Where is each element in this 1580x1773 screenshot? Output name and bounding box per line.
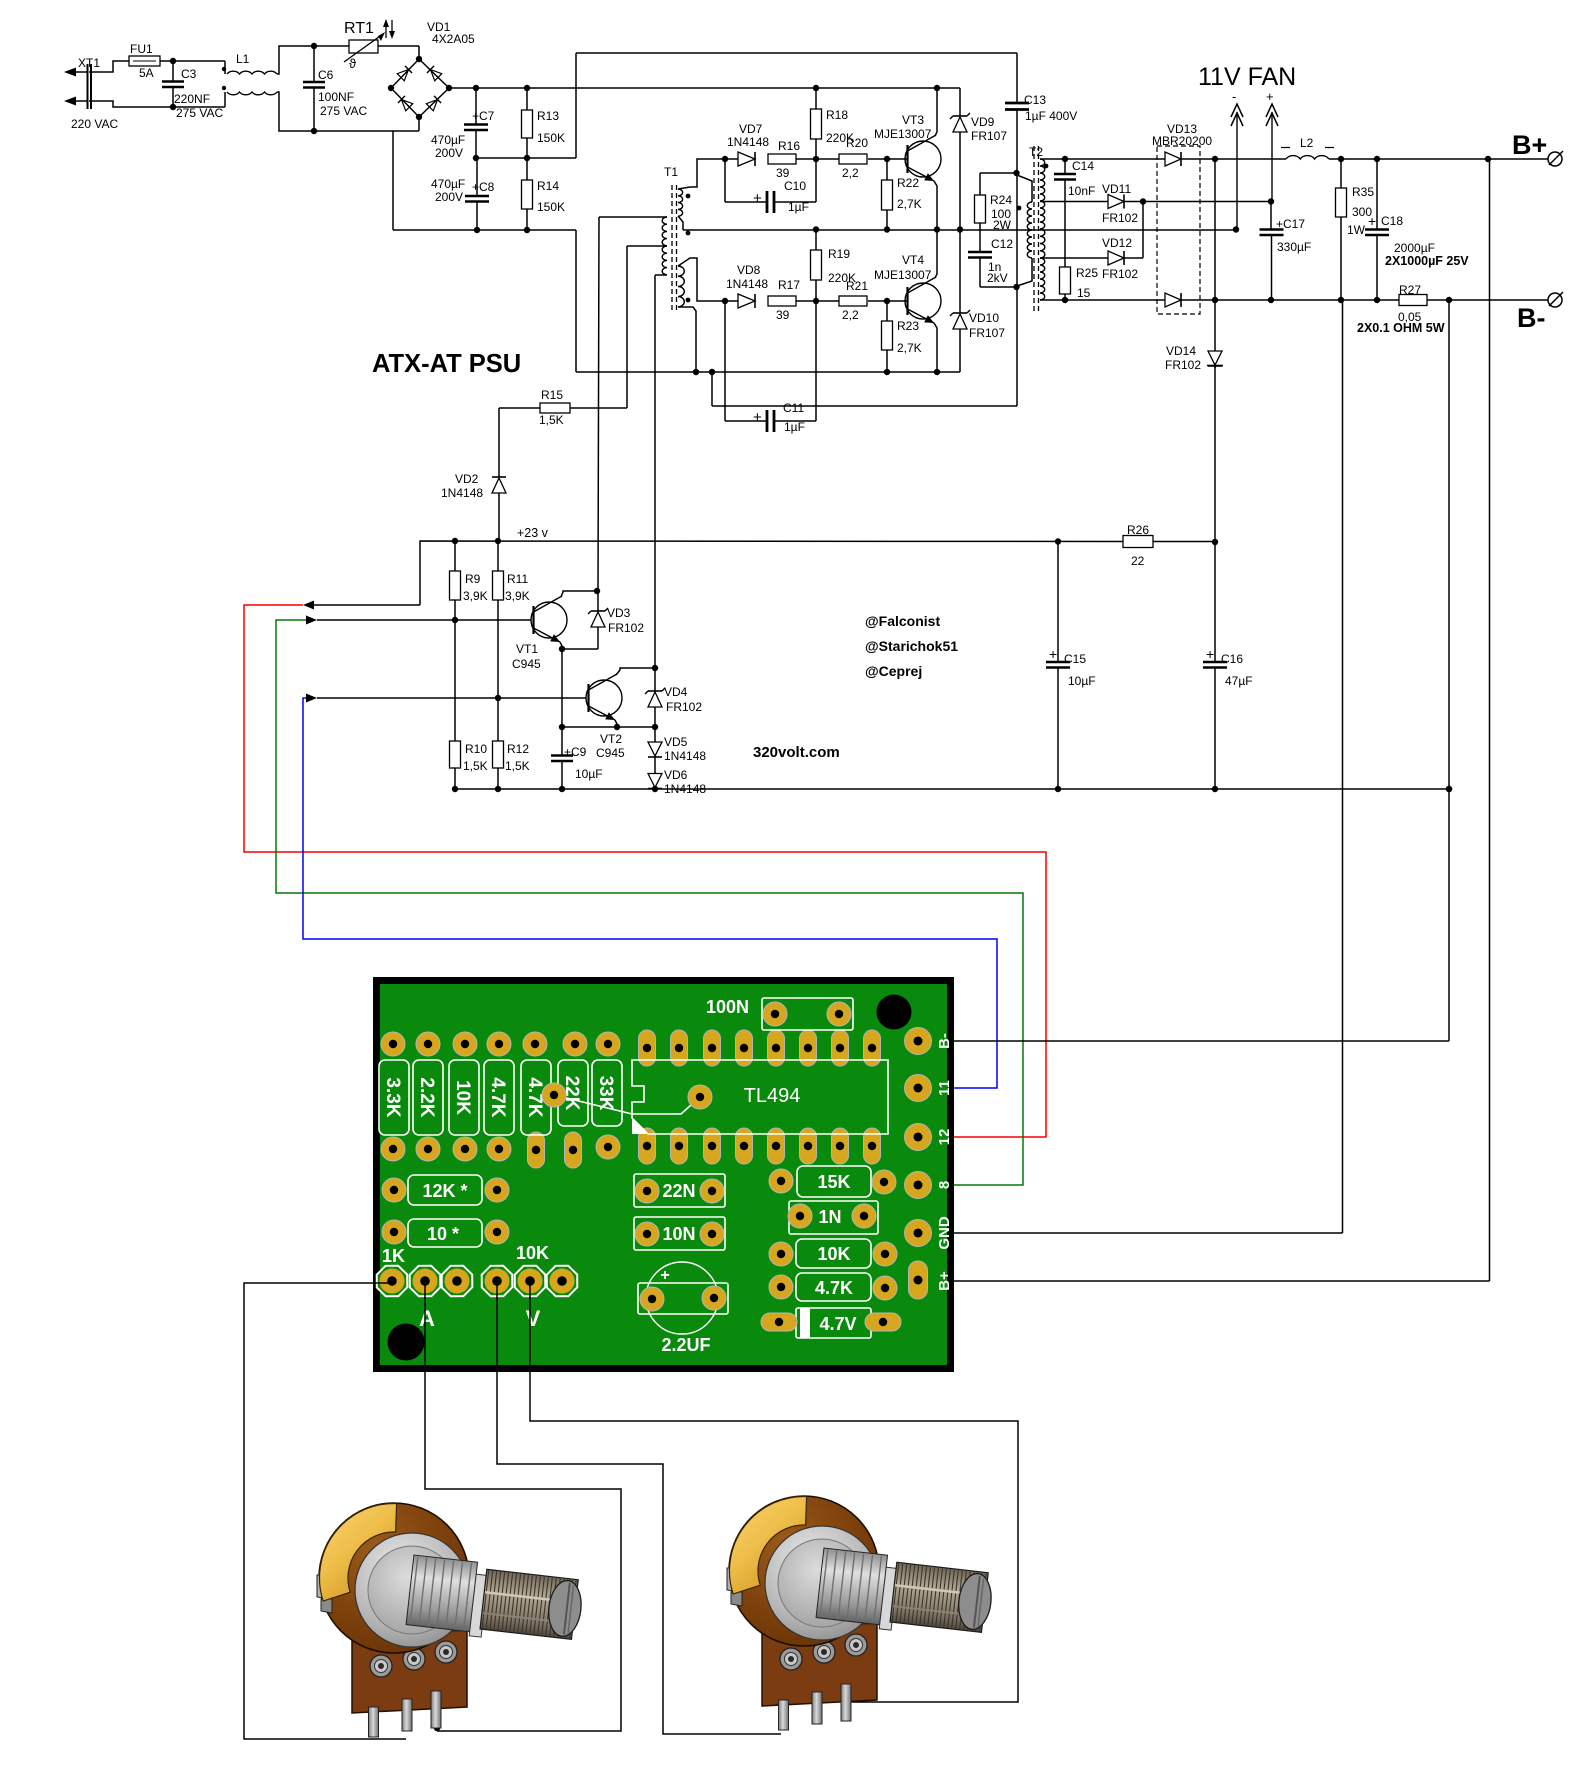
- svg-text:+C8: +C8: [472, 180, 495, 194]
- svg-text:T2: T2: [1029, 145, 1043, 159]
- svg-text:R27: R27: [1399, 283, 1421, 297]
- svg-text:R11: R11: [507, 572, 528, 586]
- svg-text:MJE13007: MJE13007: [874, 127, 932, 141]
- svg-text:275 VAC: 275 VAC: [320, 104, 367, 118]
- svg-text:4.7K: 4.7K: [815, 1278, 853, 1298]
- svg-text:300: 300: [1352, 205, 1372, 219]
- svg-text:+: +: [1049, 646, 1057, 662]
- svg-text:8: 8: [936, 1181, 953, 1189]
- svg-text:1K: 1K: [382, 1246, 405, 1266]
- svg-text:C10: C10: [784, 179, 806, 193]
- svg-text:1N4148: 1N4148: [727, 135, 769, 149]
- svg-text:10K: 10K: [817, 1244, 850, 1264]
- svg-text:R22: R22: [897, 176, 919, 190]
- svg-text:330µF: 330µF: [1277, 240, 1311, 254]
- svg-text:150K: 150K: [537, 131, 565, 145]
- svg-text:C15: C15: [1064, 652, 1086, 666]
- svg-text:FR102: FR102: [1102, 267, 1138, 281]
- svg-text:R13: R13: [537, 109, 559, 123]
- svg-text:FR102: FR102: [666, 700, 702, 714]
- svg-text:220 VAC: 220 VAC: [71, 117, 118, 131]
- svg-text:2000µF: 2000µF: [1394, 241, 1435, 255]
- svg-text:2,2: 2,2: [842, 166, 859, 180]
- svg-text:10K: 10K: [516, 1243, 549, 1263]
- svg-text:XT1: XT1: [78, 56, 100, 70]
- svg-text:FR107: FR107: [969, 326, 1005, 340]
- svg-text:150K: 150K: [537, 200, 565, 214]
- svg-text:R12: R12: [507, 742, 529, 756]
- svg-text:4.7V: 4.7V: [819, 1314, 856, 1334]
- svg-text:15: 15: [1077, 286, 1091, 300]
- svg-text:FR102: FR102: [1165, 358, 1201, 372]
- svg-text:320volt.com: 320volt.com: [753, 744, 840, 761]
- svg-text:+: +: [753, 409, 762, 426]
- svg-text:11V FAN: 11V FAN: [1198, 63, 1296, 91]
- svg-text:10nF: 10nF: [1068, 184, 1095, 198]
- svg-text:R15: R15: [541, 388, 563, 402]
- svg-text:R9: R9: [465, 572, 481, 586]
- svg-text:1N: 1N: [818, 1207, 841, 1227]
- svg-text:C18: C18: [1381, 214, 1403, 228]
- svg-text:22N: 22N: [662, 1181, 695, 1201]
- svg-text:1N4148: 1N4148: [441, 486, 483, 500]
- svg-text:B-: B-: [936, 1033, 953, 1049]
- svg-text:10 *: 10 *: [427, 1224, 459, 1244]
- svg-text:15K: 15K: [817, 1172, 850, 1192]
- svg-text:VD14: VD14: [1166, 344, 1196, 358]
- svg-text:@Ceprej: @Ceprej: [865, 663, 922, 679]
- svg-text:R21: R21: [846, 279, 868, 293]
- svg-text:C12: C12: [991, 237, 1013, 251]
- svg-text:C11: C11: [783, 401, 804, 415]
- svg-text:1,5K: 1,5K: [505, 759, 530, 773]
- svg-text:1µF: 1µF: [788, 200, 809, 214]
- svg-text:22: 22: [1131, 554, 1145, 568]
- svg-text:C16: C16: [1221, 652, 1243, 666]
- svg-text:C14: C14: [1072, 159, 1094, 173]
- svg-text:470µF: 470µF: [431, 133, 465, 147]
- svg-text:VD8: VD8: [737, 263, 761, 277]
- svg-text:2kV: 2kV: [987, 271, 1008, 285]
- svg-text:V: V: [526, 1306, 541, 1331]
- svg-text:12K *: 12K *: [422, 1181, 467, 1201]
- svg-text:R17: R17: [778, 278, 800, 292]
- svg-text:10µF: 10µF: [575, 767, 603, 781]
- svg-text:100NF: 100NF: [318, 90, 354, 104]
- svg-text:C6: C6: [318, 68, 334, 82]
- svg-text:10N: 10N: [662, 1224, 695, 1244]
- svg-text:2,7K: 2,7K: [897, 197, 922, 211]
- svg-text:VT2: VT2: [600, 732, 622, 746]
- svg-text:200V: 200V: [435, 146, 463, 160]
- svg-text:R26: R26: [1127, 523, 1149, 537]
- svg-text:R18: R18: [826, 108, 848, 122]
- svg-text:2W: 2W: [993, 218, 1012, 232]
- svg-text:1µF 400V: 1µF 400V: [1025, 109, 1077, 123]
- svg-text:220NF: 220NF: [174, 92, 210, 106]
- svg-text:B+: B+: [936, 1271, 953, 1291]
- svg-text:+: +: [1266, 89, 1274, 104]
- svg-text:L2: L2: [1300, 136, 1314, 150]
- svg-text:@Starichok51: @Starichok51: [865, 638, 958, 654]
- svg-text:1,5K: 1,5K: [463, 759, 488, 773]
- svg-text:+: +: [660, 1267, 669, 1284]
- svg-text:VD11: VD11: [1102, 182, 1131, 196]
- svg-text:+C17: +C17: [1276, 217, 1305, 231]
- svg-text:VT3: VT3: [902, 113, 924, 127]
- svg-text:1N4148: 1N4148: [664, 749, 706, 763]
- svg-text:12: 12: [936, 1129, 953, 1146]
- svg-text:R16: R16: [778, 139, 800, 153]
- svg-text:5A: 5A: [139, 66, 154, 80]
- svg-text:B+: B+: [1512, 130, 1547, 160]
- svg-text:FR107: FR107: [971, 129, 1007, 143]
- svg-text:+C7: +C7: [472, 109, 495, 123]
- svg-text:-: -: [1232, 89, 1236, 104]
- svg-text:1,5K: 1,5K: [539, 413, 564, 427]
- svg-text:MBR20200: MBR20200: [1152, 134, 1212, 148]
- svg-text:VD12: VD12: [1102, 236, 1132, 250]
- svg-text:T1: T1: [664, 165, 678, 179]
- svg-text:2.2UF: 2.2UF: [661, 1335, 710, 1355]
- svg-text:2X1000µF 25V: 2X1000µF 25V: [1385, 254, 1469, 268]
- svg-text:4X2A05: 4X2A05: [432, 32, 475, 46]
- svg-text:2X0.1 OHM 5W: 2X0.1 OHM 5W: [1357, 321, 1445, 335]
- svg-text:11: 11: [936, 1080, 953, 1096]
- svg-text:R19: R19: [828, 247, 850, 261]
- svg-text:VD10: VD10: [969, 311, 999, 325]
- svg-text:L1: L1: [236, 52, 250, 66]
- svg-text:R24: R24: [990, 193, 1012, 207]
- svg-text:R20: R20: [846, 136, 868, 150]
- svg-text:+: +: [753, 190, 762, 207]
- svg-text:VD4: VD4: [664, 685, 688, 699]
- svg-text:1N4148: 1N4148: [664, 782, 706, 796]
- svg-text:+: +: [1206, 646, 1214, 662]
- svg-text:ϑ: ϑ: [349, 56, 357, 71]
- svg-text:100N: 100N: [706, 997, 749, 1017]
- svg-text:10µF: 10µF: [1068, 674, 1096, 688]
- svg-text:@Falconist: @Falconist: [865, 613, 940, 629]
- svg-text:39: 39: [776, 166, 790, 180]
- svg-text:R25: R25: [1076, 266, 1098, 280]
- svg-text:2.2K: 2.2K: [416, 1077, 437, 1117]
- svg-text:2,7K: 2,7K: [897, 341, 922, 355]
- svg-text:200V: 200V: [435, 190, 463, 204]
- svg-text:VT4: VT4: [902, 253, 924, 267]
- svg-text:+23 v: +23 v: [517, 526, 549, 540]
- svg-text:GND: GND: [936, 1216, 953, 1250]
- svg-text:275 VAC: 275 VAC: [176, 106, 223, 120]
- svg-text:C945: C945: [596, 746, 625, 760]
- svg-text:2,2: 2,2: [842, 308, 859, 322]
- svg-text:MJE13007: MJE13007: [874, 268, 932, 282]
- svg-text:1W: 1W: [1347, 223, 1366, 237]
- svg-text:47µF: 47µF: [1225, 674, 1253, 688]
- svg-text:VD5: VD5: [664, 735, 688, 749]
- svg-text:3,9K: 3,9K: [505, 589, 530, 603]
- svg-text:R10: R10: [465, 742, 487, 756]
- svg-text:+C9: +C9: [564, 745, 587, 759]
- svg-text:C3: C3: [181, 67, 197, 81]
- svg-text:R35: R35: [1352, 185, 1374, 199]
- svg-text:VD6: VD6: [664, 768, 688, 782]
- svg-text:3,9K: 3,9K: [463, 589, 488, 603]
- svg-text:RT1: RT1: [344, 20, 374, 37]
- svg-text:TL494: TL494: [744, 1085, 801, 1107]
- svg-text:VD9: VD9: [971, 115, 995, 129]
- svg-text:39: 39: [776, 308, 790, 322]
- svg-text:FR102: FR102: [608, 621, 644, 635]
- svg-text:FU1: FU1: [130, 42, 153, 56]
- svg-text:4.7K: 4.7K: [487, 1077, 508, 1117]
- svg-text:C13: C13: [1024, 93, 1046, 107]
- svg-text:VT1: VT1: [516, 642, 538, 656]
- svg-text:1N4148: 1N4148: [726, 277, 768, 291]
- svg-text:1µF: 1µF: [784, 420, 805, 434]
- svg-text:470µF: 470µF: [431, 177, 465, 191]
- svg-text:R14: R14: [537, 179, 559, 193]
- svg-text:B-: B-: [1517, 303, 1546, 333]
- svg-text:FR102: FR102: [1102, 211, 1138, 225]
- svg-text:10K: 10K: [452, 1080, 473, 1115]
- svg-text:A: A: [419, 1306, 435, 1331]
- svg-text:VD3: VD3: [607, 606, 631, 620]
- svg-text:ATX-AT PSU: ATX-AT PSU: [372, 350, 521, 378]
- svg-text:C945: C945: [512, 657, 541, 671]
- svg-text:3.3K: 3.3K: [382, 1077, 403, 1117]
- svg-text:VD7: VD7: [739, 122, 763, 136]
- svg-text:VD2: VD2: [455, 472, 479, 486]
- svg-text:R23: R23: [897, 319, 919, 333]
